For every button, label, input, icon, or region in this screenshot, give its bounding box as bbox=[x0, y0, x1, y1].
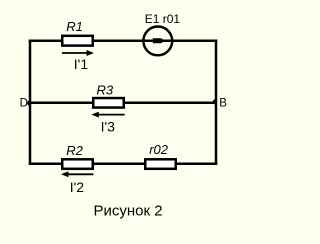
resistor R3 bbox=[93, 98, 124, 108]
label node D bbox=[20, 97, 28, 109]
svg-text:R2: R2 bbox=[66, 143, 83, 158]
svg-text:D: D bbox=[20, 97, 28, 109]
label r02 bbox=[149, 142, 169, 157]
wire: top branch bbox=[30, 39, 216, 42]
current arrow I'3 bbox=[91, 112, 124, 118]
caption: Рисунок 2 bbox=[93, 202, 162, 219]
label R2 bbox=[66, 143, 83, 158]
label E1 r01 bbox=[145, 12, 181, 26]
svg-text:B: B bbox=[219, 98, 227, 110]
label R1 bbox=[66, 19, 83, 34]
wire: left vertical (D branch) bbox=[29, 41, 32, 164]
svg-text:I'2: I'2 bbox=[70, 179, 85, 195]
resistor R1 bbox=[62, 36, 93, 46]
label I'1 bbox=[74, 56, 89, 72]
svg-text:R3: R3 bbox=[97, 82, 114, 97]
svg-text:r02: r02 bbox=[149, 142, 169, 157]
current arrow I'2 bbox=[61, 171, 93, 177]
label node B bbox=[219, 98, 227, 110]
node B junction dot bbox=[213, 100, 216, 105]
current arrow I'1 bbox=[62, 50, 94, 56]
svg-text:R1: R1 bbox=[66, 19, 83, 34]
svg-text:E1 r01: E1 r01 bbox=[145, 12, 181, 26]
wire: bottom branch bbox=[30, 163, 216, 166]
wire: middle branch D to B bbox=[30, 102, 216, 105]
wire: right vertical (B branch) bbox=[215, 41, 218, 164]
resistor R2 bbox=[62, 159, 93, 169]
label I'2 bbox=[70, 179, 85, 195]
svg-text:Рисунок 2: Рисунок 2 bbox=[93, 202, 162, 219]
resistor r02 bbox=[145, 159, 176, 169]
label I'3 bbox=[101, 118, 116, 134]
node D junction dot bbox=[27, 101, 30, 106]
label R3 bbox=[97, 82, 114, 97]
svg-text:I'3: I'3 bbox=[101, 118, 116, 134]
EMF source E1 r01 bbox=[143, 27, 172, 56]
svg-text:I'1: I'1 bbox=[74, 56, 89, 72]
